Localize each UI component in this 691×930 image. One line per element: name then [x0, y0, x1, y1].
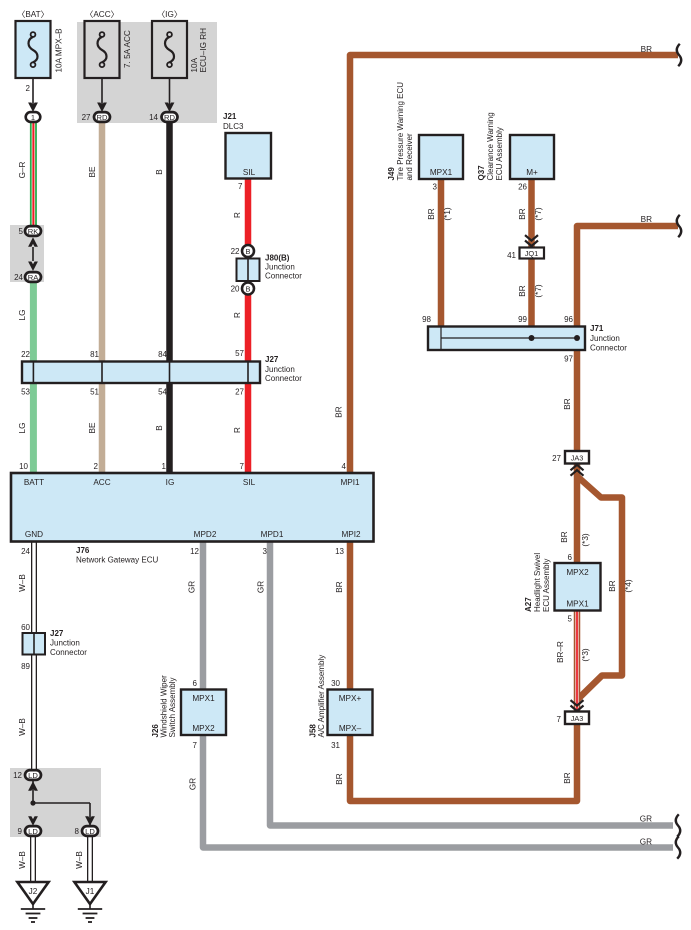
svg-text:57: 57	[235, 349, 244, 358]
svg-text:BE: BE	[88, 422, 97, 433]
svg-text:51: 51	[90, 388, 99, 397]
svg-text:7: 7	[193, 741, 198, 750]
junction JQ1	[507, 248, 544, 261]
svg-text:LG: LG	[18, 423, 27, 434]
connector pair RK/RA	[14, 226, 41, 282]
svg-text:12: 12	[190, 547, 199, 556]
wire W-B from LD(9) to ground J2	[30, 835, 36, 882]
svg-text:JQ1: JQ1	[525, 249, 539, 258]
wire BR second bus: from break right, corner, down through J71 pin96/97 to JA3(27)	[577, 226, 678, 453]
svg-text:7. 5A ACC: 7. 5A ACC	[123, 30, 132, 68]
svg-text:MPX2: MPX2	[566, 568, 589, 577]
wire BR main bus: corner top, down to J76 MPI1	[350, 55, 678, 474]
svg-text:Headlight Swivel: Headlight Swivel	[533, 553, 542, 612]
svg-text:JA3: JA3	[571, 454, 584, 463]
J27 long junction connector bar	[21, 349, 302, 397]
svg-text:BR: BR	[518, 208, 527, 219]
svg-text:9: 9	[18, 827, 23, 836]
svg-text:22: 22	[231, 247, 240, 256]
svg-text:B: B	[246, 285, 251, 294]
ECU J49 Tire Pressure Warning ECU and Receiver	[387, 82, 463, 192]
svg-text:R: R	[233, 427, 242, 433]
svg-text:RA: RA	[28, 273, 39, 282]
ground J2	[17, 882, 48, 922]
svg-text:BR: BR	[427, 208, 436, 219]
svg-text:B: B	[246, 247, 251, 256]
wire B from fuse IG to J76 IG	[166, 120, 173, 474]
svg-text:J80(B): J80(B)	[265, 254, 290, 263]
svg-text:BR: BR	[563, 772, 572, 783]
ECU J26 Windshield Wiper Switch Assembly	[151, 675, 226, 750]
svg-text:BR: BR	[335, 773, 344, 784]
svg-text:and Receiver: and Receiver	[405, 133, 414, 180]
svg-text:10A MPX–B: 10A MPX–B	[55, 28, 64, 73]
svg-text:99: 99	[518, 315, 527, 324]
svg-text:ACC: ACC	[93, 478, 110, 487]
svg-text:LD: LD	[28, 827, 38, 836]
svg-text:M+: M+	[526, 168, 538, 177]
svg-text:MPX+: MPX+	[339, 694, 362, 703]
wire BR from Q37 pin26 to JQ1	[528, 179, 535, 247]
ECU A27 Headlight Swivel ECU Assembly	[524, 553, 601, 624]
svg-text:BR–R: BR–R	[556, 641, 565, 663]
J80(B) junction connector	[237, 254, 303, 282]
svg-text:12: 12	[13, 771, 22, 780]
svg-text:LD: LD	[85, 827, 95, 836]
fuse (BAT) 10A MPX-B	[16, 10, 64, 112]
svg-text:27: 27	[552, 454, 561, 463]
svg-text:6: 6	[193, 679, 198, 688]
wire GR from J76 MPD2 through J26 down, corner right to break	[203, 541, 673, 848]
svg-text:R: R	[233, 312, 242, 318]
junction connector J71	[422, 315, 627, 364]
svg-text:41: 41	[507, 251, 516, 260]
ECU Q37 Clearance Warning ECU Assembly	[477, 112, 554, 191]
connector oval RD 27	[82, 112, 110, 122]
wire BE from fuse ACC to J76 ACC	[99, 120, 106, 474]
svg-text:(*7): (*7)	[534, 284, 543, 297]
svg-text:MPX1: MPX1	[566, 600, 589, 609]
wire LG from RA to J27 bar	[30, 277, 37, 372]
svg-text:Switch Assembly: Switch Assembly	[168, 677, 177, 737]
wire BR bypass (*4) around A27	[578, 477, 622, 699]
svg-text:1: 1	[31, 113, 35, 122]
svg-text:Connector: Connector	[590, 344, 627, 353]
svg-text:J2: J2	[29, 887, 38, 896]
svg-text:Connector: Connector	[50, 648, 87, 657]
fuse (ACC) 7.5A ACC	[85, 10, 133, 112]
svg-text:IG: IG	[166, 478, 175, 487]
svg-text:A27: A27	[524, 597, 533, 612]
wire G-R from fuse BAT to RK	[30, 120, 37, 231]
svg-text:5: 5	[568, 615, 573, 624]
svg-text:Junction: Junction	[265, 365, 295, 374]
svg-text:MPX2: MPX2	[192, 724, 215, 733]
wire W-B from LD(8) to ground J1	[87, 835, 93, 882]
wire W-B from J76 GND to J27 small	[31, 541, 37, 636]
svg-text:20: 20	[231, 285, 240, 294]
svg-text:96: 96	[564, 315, 573, 324]
svg-text:81: 81	[90, 350, 99, 359]
junction dot LD branch	[30, 780, 90, 826]
connector oval RD 14	[149, 112, 177, 122]
svg-text:BE: BE	[88, 166, 97, 177]
svg-text:DLC3: DLC3	[223, 122, 244, 131]
svg-text:RD: RD	[97, 113, 108, 122]
wire BR from J58 MPX- down, right, up to JA3(7)	[350, 722, 577, 801]
svg-text:J71: J71	[590, 324, 604, 333]
wire GR from J76 MPD1 down, corner right to break	[270, 541, 673, 826]
gray panel behind LD connectors	[10, 768, 101, 837]
svg-text:SIL: SIL	[243, 478, 256, 487]
svg-text:Tire Pressure Warning ECU: Tire Pressure Warning ECU	[396, 82, 405, 181]
chevrons above JA3 7	[571, 700, 584, 711]
connector circle B 20	[231, 283, 254, 295]
svg-text:J27: J27	[50, 629, 64, 638]
svg-text:〈IG〉: 〈IG〉	[157, 10, 182, 19]
svg-text:7: 7	[557, 715, 562, 724]
svg-text:(*1): (*1)	[443, 207, 452, 220]
connector LD 8	[75, 826, 98, 836]
svg-text:27: 27	[82, 113, 91, 122]
svg-text:MPX–: MPX–	[339, 724, 362, 733]
svg-text:1: 1	[162, 462, 167, 471]
gray panel behind ACC and IG fuses	[77, 22, 217, 123]
svg-text:MPX1: MPX1	[192, 694, 215, 703]
svg-text:J76: J76	[76, 546, 90, 555]
svg-text:〈ACC〉: 〈ACC〉	[85, 10, 119, 19]
svg-text:MPI1: MPI1	[340, 478, 360, 487]
svg-text:W–B: W–B	[18, 574, 27, 592]
svg-text:7: 7	[238, 182, 243, 191]
svg-text:14: 14	[149, 113, 158, 122]
svg-text:53: 53	[21, 388, 30, 397]
svg-text:3: 3	[433, 183, 438, 192]
svg-text:Q37: Q37	[477, 165, 486, 181]
svg-text:(*3): (*3)	[581, 533, 590, 546]
svg-text:RK: RK	[28, 227, 39, 236]
svg-text:SIL: SIL	[243, 168, 256, 177]
wire R from J21 SIL to J76 SIL	[245, 178, 252, 474]
svg-text:BATT: BATT	[24, 478, 44, 487]
ground J1	[74, 882, 105, 922]
svg-text:ECU–IG RH: ECU–IG RH	[199, 28, 208, 73]
svg-text:MPD1: MPD1	[261, 530, 284, 539]
svg-text:A/C Amplifier Assembly: A/C Amplifier Assembly	[317, 655, 326, 738]
svg-text:GR: GR	[640, 838, 652, 847]
svg-text:BR: BR	[518, 285, 527, 296]
svg-text:J1: J1	[86, 887, 95, 896]
svg-text:4: 4	[342, 462, 347, 471]
svg-text:24: 24	[21, 547, 30, 556]
svg-text:(*4): (*4)	[624, 579, 633, 592]
gray panel behind RK/RA connector	[10, 225, 44, 282]
svg-text:G–R: G–R	[18, 161, 27, 178]
svg-text:GND: GND	[25, 530, 43, 539]
svg-text:27: 27	[235, 388, 244, 397]
connector LD 12	[13, 770, 41, 791]
svg-text:LD: LD	[28, 771, 38, 780]
svg-text:JA3: JA3	[571, 714, 584, 723]
svg-text:MPX1: MPX1	[430, 168, 453, 177]
svg-text:3: 3	[263, 547, 268, 556]
chevrons above JQ1	[525, 235, 538, 246]
svg-text:LG: LG	[18, 310, 27, 321]
svg-text:54: 54	[158, 388, 167, 397]
svg-text:84: 84	[158, 350, 167, 359]
svg-text:GR: GR	[189, 778, 198, 790]
svg-text:Clearance Warning: Clearance Warning	[486, 112, 495, 180]
svg-text:5: 5	[19, 227, 24, 236]
junction JA3 7	[557, 712, 589, 725]
wire BR-R from A27 pin5 down to JA3(7) chevrons	[574, 610, 581, 713]
fuse (IG) 10A ECU-IG RH	[152, 10, 208, 112]
arrows to LD 9 and LD 8	[28, 816, 38, 826]
svg-text:Junction: Junction	[590, 334, 620, 343]
svg-text:W–B: W–B	[18, 851, 27, 869]
svg-text:GR: GR	[640, 815, 652, 824]
svg-text:7: 7	[240, 462, 245, 471]
svg-text:MPD2: MPD2	[194, 530, 217, 539]
svg-text:8: 8	[75, 827, 80, 836]
wire W-B from J27 small to LD(12)	[31, 652, 37, 772]
svg-text:60: 60	[21, 623, 30, 632]
svg-text:R: R	[233, 212, 242, 218]
junction JA3 27	[552, 451, 589, 464]
svg-text:Junction: Junction	[50, 639, 80, 648]
svg-text:J21: J21	[223, 112, 237, 121]
svg-text:BR: BR	[335, 581, 344, 592]
svg-text:2: 2	[94, 462, 99, 471]
svg-text:Connector: Connector	[265, 272, 302, 281]
svg-text:(*7): (*7)	[534, 207, 543, 220]
J27 small junction connector	[21, 623, 87, 671]
svg-text:31: 31	[331, 741, 340, 750]
chevrons below JA3 27	[571, 465, 584, 476]
svg-text:2: 2	[26, 84, 31, 93]
svg-text:24: 24	[14, 273, 23, 282]
svg-text:13: 13	[335, 547, 344, 556]
ECU J58 A/C Amplifier Assembly	[309, 655, 373, 750]
svg-text:ECU Assembly: ECU Assembly	[495, 127, 504, 180]
svg-text:BR: BR	[641, 215, 652, 224]
svg-text:MPI2: MPI2	[341, 530, 361, 539]
svg-text:RD: RD	[164, 113, 175, 122]
svg-text:10A: 10A	[190, 57, 199, 72]
wire BR from JQ1 to J71 pin99	[528, 258, 535, 340]
svg-text:6: 6	[568, 553, 573, 562]
svg-text:30: 30	[331, 679, 340, 688]
connector circle B 22	[231, 245, 254, 257]
svg-text:BR: BR	[335, 406, 344, 417]
svg-text:W–B: W–B	[75, 851, 84, 869]
wire LG from J27 bar to J76 BATT	[30, 372, 37, 474]
svg-text:89: 89	[21, 662, 30, 671]
wire BR from J49 pin3 to J71 pin98	[438, 179, 445, 328]
svg-text:(*3): (*3)	[581, 648, 590, 661]
connector LD 9	[18, 826, 41, 836]
svg-text:ECU Assembly: ECU Assembly	[542, 559, 551, 612]
svg-text:J27: J27	[265, 355, 279, 364]
svg-text:J49: J49	[387, 167, 396, 181]
wire BR from J76 MPI2 down to J58 MPX+	[347, 541, 354, 691]
svg-text:98: 98	[422, 315, 431, 324]
svg-text:Network Gateway ECU: Network Gateway ECU	[76, 556, 158, 565]
svg-text:10: 10	[19, 462, 28, 471]
svg-text:Junction: Junction	[265, 263, 295, 272]
svg-text:Connector: Connector	[265, 374, 302, 383]
svg-text:22: 22	[21, 350, 30, 359]
svg-text:BR: BR	[560, 531, 569, 542]
svg-text:B: B	[155, 425, 164, 431]
svg-text:26: 26	[518, 183, 527, 192]
svg-text:GR: GR	[188, 581, 197, 593]
svg-text:BR: BR	[608, 580, 617, 591]
svg-text:B: B	[155, 169, 164, 175]
connector oval 1	[26, 112, 41, 122]
ECU J76 Network Gateway ECU	[11, 473, 374, 542]
svg-text:97: 97	[564, 355, 573, 364]
svg-text:〈BAT〉: 〈BAT〉	[17, 10, 49, 19]
svg-text:BR: BR	[563, 398, 572, 409]
svg-text:GR: GR	[257, 581, 266, 593]
svg-text:W–B: W–B	[18, 718, 27, 736]
wire BR from JA3(27) chevrons down to A27 pin6	[574, 463, 581, 564]
J21 DLC3 box	[223, 112, 271, 191]
svg-text:BR: BR	[641, 45, 652, 54]
